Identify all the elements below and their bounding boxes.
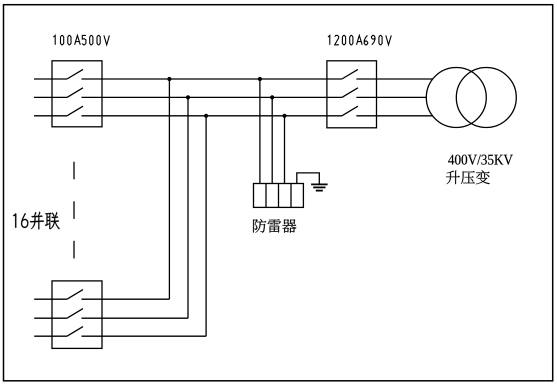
wire: S2 (1200A690V) pole 2 right lead bbox=[356, 96, 427, 98]
wire: S2 (1200A690V) pole 1 right lead bbox=[356, 78, 433, 80]
junction node (206.1,115.8) bbox=[204, 114, 208, 118]
switch blade S3 (parallel unit) pole 2 bbox=[67, 309, 83, 319]
switch blade S2 (1200A690V) pole 3 bbox=[342, 106, 358, 116]
switch blade S1 (100A500V) pole 2 bbox=[67, 88, 83, 98]
label: 16并联 (16 units in parallel) bbox=[13, 212, 60, 230]
switch blade S1 (100A500V) pole 1 bbox=[67, 69, 83, 79]
dashed line: repeated parallel units indicator bbox=[73, 162, 75, 259]
transformer T1 secondary winding circle bbox=[456, 68, 516, 128]
junction node (259.9,79.0) bbox=[258, 77, 262, 81]
wire: riser from S3 lead up to bus at x=169.4 bbox=[168, 79, 170, 299]
wire: arrester drop 1 at x=259.9 bbox=[259, 79, 261, 184]
junction node (284.5,115.8) bbox=[282, 114, 286, 118]
junction node (169.4,79.0) bbox=[167, 77, 171, 81]
wire: S3 (parallel unit) pole 1 right lead bbox=[82, 298, 170, 300]
wire: S1 (100A500V) pole 1 right lead bbox=[82, 78, 342, 80]
label: 升压变 (step-up transformer) bbox=[446, 170, 490, 184]
wire: riser from S3 lead up to bus at x=206.1 bbox=[205, 116, 207, 336]
wire: S3 (parallel unit) pole 3 left lead bbox=[34, 335, 67, 337]
switch blade S2 (1200A690V) pole 2 bbox=[342, 88, 358, 98]
wire: S1 (100A500V) pole 1 left lead bbox=[34, 78, 67, 80]
transformer T1 primary winding circle bbox=[426, 68, 486, 128]
wire: S1 (100A500V) pole 2 right lead bbox=[82, 96, 342, 98]
switch blade S3 (parallel unit) pole 1 bbox=[67, 290, 83, 300]
label: 100A500V rating of S1 bbox=[53, 35, 109, 44]
surge arrester cell divider 3 bbox=[290, 184, 292, 208]
junction node (272.2,97.4) bbox=[270, 95, 274, 99]
wire: S3 (parallel unit) pole 1 left lead bbox=[34, 298, 67, 300]
wire: S2 (1200A690V) pole 3 right lead bbox=[356, 115, 433, 117]
label: 1200A690V rating of S2 bbox=[328, 35, 391, 44]
wire: S1 (100A500V) pole 2 left lead bbox=[34, 96, 67, 98]
wire: S3 (parallel unit) pole 2 left lead bbox=[34, 317, 67, 319]
surge arrester FV1 body bbox=[254, 184, 304, 208]
label: 400V/35KV transformer rating bbox=[448, 155, 513, 165]
ground symbol bbox=[311, 184, 328, 190]
circuit breaker box S2 (1200A690V) bbox=[327, 61, 377, 128]
label: 防雷器 (surge arrester) bbox=[253, 219, 296, 233]
wire: S3 (parallel unit) pole 2 right lead bbox=[82, 317, 189, 319]
wire: S3 (parallel unit) pole 3 right lead bbox=[82, 335, 207, 337]
wire: S1 (100A500V) pole 3 left lead bbox=[34, 115, 67, 117]
wire: S1 (100A500V) pole 3 right lead bbox=[82, 115, 342, 117]
wire: riser from S3 lead up to bus at x=188.0 bbox=[187, 97, 189, 318]
surge arrester cell divider 2 bbox=[278, 184, 280, 208]
circuit breaker box S3 (parallel unit) bbox=[52, 281, 102, 349]
wire: arrester cell 4 to earth link bbox=[297, 173, 320, 184]
switch blade S2 (1200A690V) pole 1 bbox=[342, 69, 358, 79]
switch blade S3 (parallel unit) pole 3 bbox=[67, 327, 83, 337]
circuit breaker box S1 (100A500V) bbox=[52, 61, 102, 127]
switch blade S1 (100A500V) pole 3 bbox=[67, 106, 83, 116]
wire: arrester drop 2 at x=272.2 bbox=[271, 97, 273, 183]
wire: arrester drop 3 at x=284.5 bbox=[284, 116, 286, 184]
surge arrester cell divider 1 bbox=[265, 184, 267, 208]
junction node (188.0,97.4) bbox=[186, 95, 190, 99]
